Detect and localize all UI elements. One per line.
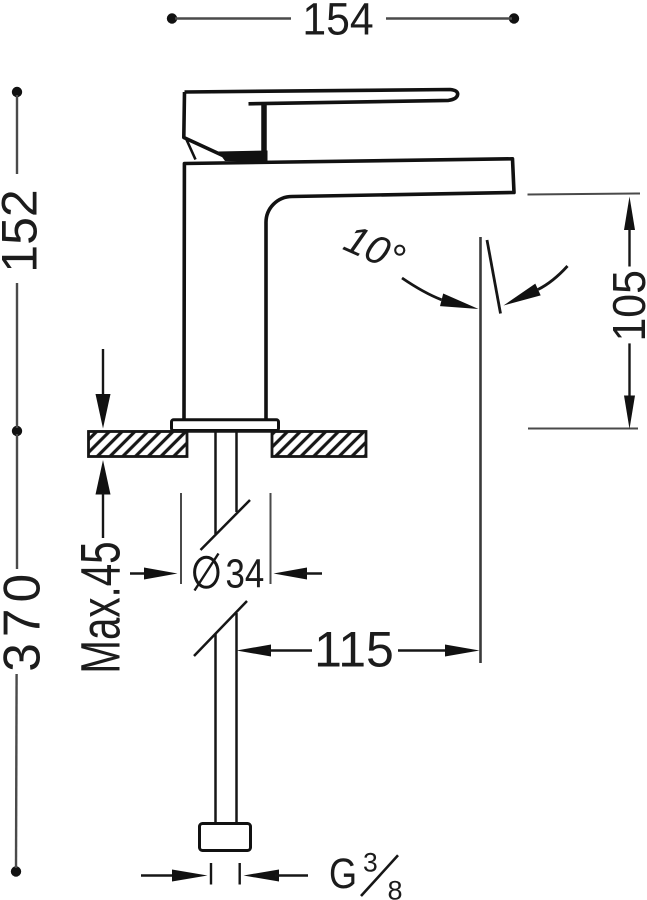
countertop surface line xyxy=(89,430,367,432)
cartridge housing left edge xyxy=(184,92,223,156)
dim Max.45 arrow up xyxy=(96,460,111,538)
dim 105 line with arrows xyxy=(624,197,635,430)
dimension 154 label xyxy=(302,0,373,45)
lever stem xyxy=(261,104,267,155)
dim 115 label xyxy=(314,622,394,678)
dimension 152 label xyxy=(0,189,48,272)
supply nut xyxy=(200,824,251,851)
base plate xyxy=(172,420,279,431)
svg-text:34: 34 xyxy=(226,552,265,597)
dimension 370 line xyxy=(16,434,17,868)
dimension 370 dot bottom xyxy=(11,866,21,876)
reference vertical line for 10 deg and 115 xyxy=(479,237,482,663)
countertop hatch left xyxy=(89,432,188,457)
dim Max.45 arrow down xyxy=(96,349,111,429)
faucet body outline xyxy=(184,159,514,419)
svg-text:G: G xyxy=(329,850,357,898)
dim diameter 34 extension lines xyxy=(181,493,271,584)
dim diameter 34 label xyxy=(195,552,265,597)
dim 115 arrow left xyxy=(237,645,313,657)
dimension 154 dot left xyxy=(167,13,177,23)
shank pipe upper segment xyxy=(216,432,237,535)
shank pipe lower segment xyxy=(216,613,237,824)
handle bottom thick band xyxy=(218,151,268,162)
cartridge inner diagonal xyxy=(186,139,196,160)
dimension 152 line xyxy=(16,95,18,428)
10 deg right arc arrow xyxy=(504,266,568,306)
dim 115 arrow right xyxy=(398,645,480,657)
dim G3/8 arrow right xyxy=(244,870,309,882)
dim 105 bottom extension line xyxy=(528,428,638,430)
dimension 152 dot bottom / 370 dot top xyxy=(12,426,22,436)
dim diameter 34 arrow left xyxy=(130,568,178,580)
svg-text:152: 152 xyxy=(0,189,48,272)
svg-text:8: 8 xyxy=(388,876,403,900)
dim 105 top extension line xyxy=(528,194,641,195)
dimension 154 dot right xyxy=(509,13,519,23)
dim G3/8 tick left xyxy=(210,863,212,885)
svg-text:154: 154 xyxy=(302,0,373,45)
dim G3/8 arrow left xyxy=(141,870,208,882)
dim 105 label xyxy=(605,270,647,341)
10 deg left arc arrow xyxy=(402,278,479,309)
pipe break mark lower xyxy=(194,601,247,656)
10 deg tilted line xyxy=(487,240,501,314)
lever handle top bar xyxy=(185,90,458,104)
svg-text:115: 115 xyxy=(314,622,394,678)
countertop hatch right xyxy=(272,432,366,457)
dimension 154 line xyxy=(175,17,512,19)
svg-text:370: 370 xyxy=(0,568,51,672)
dim G3/8 tick right xyxy=(238,863,240,885)
pipe break mark upper xyxy=(201,500,251,550)
dimension 370 label xyxy=(0,568,51,672)
dimension 152 dot top xyxy=(12,87,22,97)
10 deg label xyxy=(338,217,411,282)
dim Max.45 label xyxy=(70,541,132,673)
svg-text:Max.45: Max.45 xyxy=(70,541,132,673)
dim diameter 34 arrow right xyxy=(274,568,323,580)
G 3/8 label xyxy=(329,848,403,900)
svg-text:3: 3 xyxy=(363,848,378,878)
svg-text:105: 105 xyxy=(605,270,647,341)
